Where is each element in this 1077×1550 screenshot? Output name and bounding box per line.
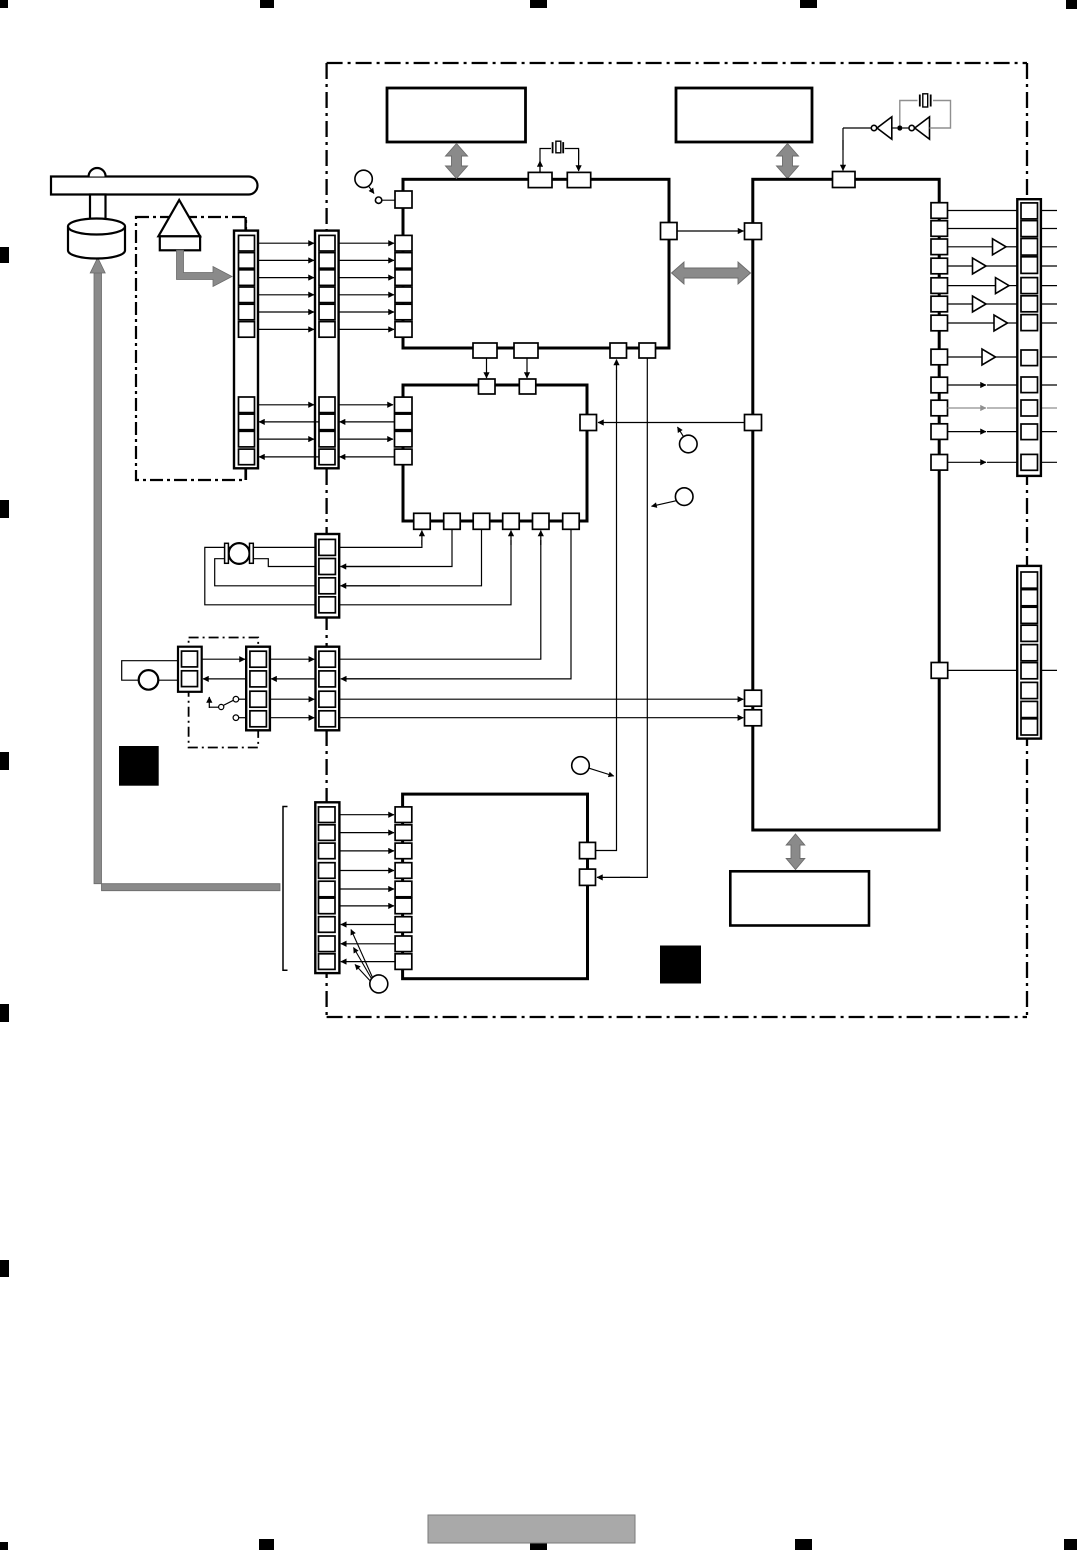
IC2 right pin xyxy=(580,415,597,431)
registration mark top 4 xyxy=(800,0,817,8)
IC2 top pin E xyxy=(479,379,496,394)
crystal X2 feedback loop xyxy=(900,101,951,129)
wire CN8-CN5 row 1 xyxy=(202,658,245,660)
registration mark bottom-right xyxy=(1064,1539,1077,1550)
wire CN3 stub row 12 xyxy=(1041,461,1057,463)
buffer row6 xyxy=(973,296,987,312)
wire CN1-CN2 servo row 1 xyxy=(258,404,314,406)
gray wire row10 xyxy=(948,407,1058,409)
spindle motor (cylinder) xyxy=(68,219,125,259)
IC3 left pin row4 xyxy=(745,710,762,726)
clock feed wire xyxy=(843,128,871,171)
IC2 servo processor xyxy=(403,385,587,521)
registration mark left 1 xyxy=(0,247,9,263)
inverter U1 xyxy=(871,117,892,139)
registration mark bottom-left xyxy=(0,1542,8,1550)
wire CN7-IC4 row 6 xyxy=(339,905,394,907)
wire CN2-IC1 row 2 xyxy=(339,259,394,261)
wire CN5-CN6 row 3 xyxy=(270,698,314,700)
wire IC4-CN7 row 9 xyxy=(341,961,395,963)
connector CN5 (switch side) xyxy=(246,647,270,731)
annotation circle D with three pointers xyxy=(351,930,388,993)
wire CN1-CN2 row 2 xyxy=(258,259,314,261)
IC3 left pin row1 xyxy=(745,223,762,240)
wire CN3 stub row 11 xyxy=(1041,431,1057,433)
wire IC3-CN3 row 5 xyxy=(948,285,1018,287)
wire CN5-CN6 row 1 xyxy=(270,658,314,660)
gray bus arrow IC1/IC3 xyxy=(672,262,751,284)
dash-dot switch unit border xyxy=(189,638,259,748)
wire IC3 to IC2 xyxy=(598,422,745,424)
wire CN6-IC3 row 4 xyxy=(339,717,743,719)
wire CN1-CN2 row 4 xyxy=(258,294,314,296)
wire CN2-IC1 row 6 xyxy=(339,328,394,330)
wire CN1-CN2 row 3 xyxy=(258,277,314,279)
IC2 bottom pins 1-6 xyxy=(414,513,580,529)
wire CN3 stub row 5 xyxy=(1041,285,1057,287)
registration mark top 3 xyxy=(530,0,547,8)
connector CN7 (bottom) xyxy=(315,802,339,973)
wire CN3 stub row 9 xyxy=(1041,384,1057,386)
gray bus arrow display/IC1 xyxy=(446,144,468,179)
buffer row4 xyxy=(973,258,987,274)
wire CN7-IC4 row 2 xyxy=(339,832,394,834)
wire IC3-CN3 row 1 xyxy=(948,210,1018,212)
wire CN7-IC4 row 3 xyxy=(339,850,394,852)
buffer row8 xyxy=(982,349,996,365)
gray bus arrow key/IC3 xyxy=(777,144,799,179)
wire IC2-CN2 servo row 2 xyxy=(340,421,394,423)
wire strip row4 up to IC2 pin4 xyxy=(336,531,512,605)
IC1 test pin (top-left) xyxy=(395,191,412,208)
wire CN2-CN1 servo row 2 xyxy=(259,421,319,423)
wire focus motor loop A xyxy=(336,531,422,548)
annotation circle B xyxy=(652,488,694,506)
IC1 bottom pin A xyxy=(473,343,497,358)
pickup (triangle symbol) xyxy=(158,200,200,236)
wire CN2-IC1 row 5 xyxy=(339,311,394,313)
IC1 right pin xyxy=(661,223,678,240)
IC4 right pin 1 xyxy=(580,842,596,858)
black key square 2 xyxy=(660,946,701,984)
wire IC3-CN3 row 8 xyxy=(948,356,1018,358)
wire CN6-CN5 row 2 xyxy=(271,678,315,680)
connector CN2 (board side) xyxy=(315,231,339,469)
wire CN7-IC4 row 4 xyxy=(339,870,394,872)
test point annotation circle xyxy=(355,170,395,203)
wire CN1-CN2 row 1 xyxy=(258,242,314,244)
disc hub bump xyxy=(89,168,106,177)
wire CN7-IC4 row 1 xyxy=(339,814,394,816)
wire CN5-CN6 row 4 xyxy=(270,717,314,719)
crystal X1 wiring xyxy=(540,149,579,173)
pickup base xyxy=(160,236,200,250)
IC1 (signal processor) xyxy=(403,179,669,348)
wire CN1-CN2 row 6 xyxy=(258,328,314,330)
wire IC2 pin3 down xyxy=(341,529,482,586)
registration mark bottom 3 xyxy=(530,1539,547,1550)
IC3 left pin row2 xyxy=(745,415,762,431)
wire IC3-CN3 row 9 xyxy=(948,384,1018,386)
wire CN3 stub row 8 xyxy=(1041,356,1057,358)
wire CN3 stub row 4 xyxy=(1041,265,1057,267)
IC4 right pin 2 xyxy=(580,869,596,885)
wire CN3 stub row 7 xyxy=(1041,322,1057,324)
motor M1 wiring xyxy=(205,547,316,604)
wire CN3 stub row 6 xyxy=(1041,303,1057,305)
footer gray label box xyxy=(428,1515,635,1543)
wire CN5-CN8 row 2 xyxy=(203,678,246,680)
spindle shaft xyxy=(90,195,106,226)
buffer row3 xyxy=(993,239,1007,255)
wire IC1 pin D to IC4 right pin2 xyxy=(597,358,647,877)
IC3 right pins 1-12 xyxy=(931,203,948,470)
wire CN2-CN1 servo row 4 xyxy=(259,456,319,458)
IC3 clock pin xyxy=(833,172,856,188)
wire IC3 to CN4 xyxy=(948,669,1057,671)
disc (side view) xyxy=(51,177,258,195)
registration mark left 2 xyxy=(0,500,9,518)
registration mark top-right xyxy=(1066,0,1077,9)
key block (top-right) xyxy=(676,88,812,142)
motor M1 xyxy=(225,543,254,564)
IC1 xtal pin 1 xyxy=(528,172,552,187)
registration mark top-left xyxy=(0,0,8,8)
wire CN2-IC1 row 4 xyxy=(339,294,394,296)
wire IC1 A to IC2 E xyxy=(486,358,488,378)
motor M2 connector xyxy=(178,647,202,692)
wire IC2 pin6 down xyxy=(341,529,571,679)
wire IC4-CN7 row 8 xyxy=(341,943,395,945)
gray bus arrow IC3/display2 xyxy=(786,834,805,870)
wire IC4 right pin1 to IC1 pin C xyxy=(596,360,617,851)
wire CN3 stub row 2 xyxy=(1041,228,1057,230)
registration mark bottom 2 xyxy=(259,1539,274,1550)
registration mark left 4 xyxy=(0,1004,9,1022)
wire CN3 stub row 1 xyxy=(1041,210,1057,212)
wire IC3-CN3 row 4 xyxy=(948,265,1018,267)
wire IC1 to IC3 xyxy=(677,230,744,232)
wire CN2-IC2 servo row 3 xyxy=(339,438,393,440)
display block 2 (bottom) xyxy=(730,871,869,925)
annotation circle A xyxy=(678,427,698,453)
dash-dot mechanism unit border xyxy=(136,217,246,480)
wire CN2-IC1 row 3 xyxy=(339,277,394,279)
inverter U2 xyxy=(902,117,929,139)
IC2 top pin F xyxy=(519,379,536,394)
IC3 right pin CN4 row xyxy=(931,663,948,679)
wire CN2-IC1 row 1 xyxy=(339,242,394,244)
IC1 bottom pin D xyxy=(639,343,656,358)
wire IC3-CN3 row 11 xyxy=(948,431,1018,433)
display block (top-left) xyxy=(387,88,526,142)
wire CN6-IC3 row 3 xyxy=(339,698,743,700)
connector CN1 (mechanism side) xyxy=(234,217,258,480)
IC1 xtal pin 2 xyxy=(567,172,590,187)
gray pickup signal arrow xyxy=(177,250,233,286)
wire CN1-CN2 servo row 3 xyxy=(258,438,314,440)
IC2 left pins xyxy=(395,397,413,465)
wire IC2-CN2 servo row 4 xyxy=(340,456,394,458)
mechanism harness bracket xyxy=(283,807,288,971)
IC1 left pins xyxy=(395,235,412,337)
dash-dot main unit border xyxy=(327,63,1027,1017)
connector CN4 (right lower) xyxy=(1017,566,1041,739)
motor M1 connector xyxy=(316,534,340,618)
IC4 mechanism controller xyxy=(403,794,588,979)
annotation circle C xyxy=(572,757,614,776)
wire IC3-CN3 row 2 xyxy=(948,228,1018,230)
registration mark left 5 xyxy=(0,1260,9,1277)
wire CN3 stub row 3 xyxy=(1041,246,1057,248)
registration mark bottom 4 xyxy=(795,1539,812,1550)
switch S1 xyxy=(209,696,246,720)
IC4 left pins xyxy=(395,807,412,969)
motor M2 xyxy=(122,661,178,690)
oscillator junction node xyxy=(892,127,897,129)
wire IC3-CN3 row 7 xyxy=(948,322,1018,324)
wire IC3-CN3 row 12 xyxy=(948,461,1018,463)
gray arrow head up at spindle motor xyxy=(90,258,105,274)
crystal X1 xyxy=(553,141,564,153)
gray feed line from mechanism to bottom connector xyxy=(94,268,280,891)
IC3 left pin row3 xyxy=(745,690,762,706)
wire CN2-IC2 servo row 1 xyxy=(339,404,393,406)
crystal X2 xyxy=(920,94,931,107)
IC1 bottom pin B xyxy=(514,343,538,358)
registration mark left 3 xyxy=(0,752,9,770)
wire IC4-CN7 row 7 xyxy=(341,924,395,926)
wire IC3-CN3 row 3 xyxy=(948,246,1018,248)
wire CN7-IC4 row 5 xyxy=(339,888,394,890)
wire tray row up to IC2 pin5 xyxy=(339,531,541,660)
connector CN3 (right top) xyxy=(1017,199,1041,476)
black key square 1 xyxy=(119,746,159,786)
buffer row7 xyxy=(994,315,1008,331)
buffer row5 xyxy=(996,278,1010,294)
registration mark top 2 xyxy=(260,0,274,8)
wire IC2 pin2 down xyxy=(341,529,453,566)
IC1 bottom pin C xyxy=(610,343,627,358)
connector CN6 (board side) xyxy=(316,647,340,731)
wire IC1 B to IC2 F xyxy=(526,358,528,378)
wire CN1-CN2 row 5 xyxy=(258,311,314,313)
wire IC3-CN3 row 6 xyxy=(948,303,1018,305)
IC3 microcontroller (tall) xyxy=(753,179,939,830)
